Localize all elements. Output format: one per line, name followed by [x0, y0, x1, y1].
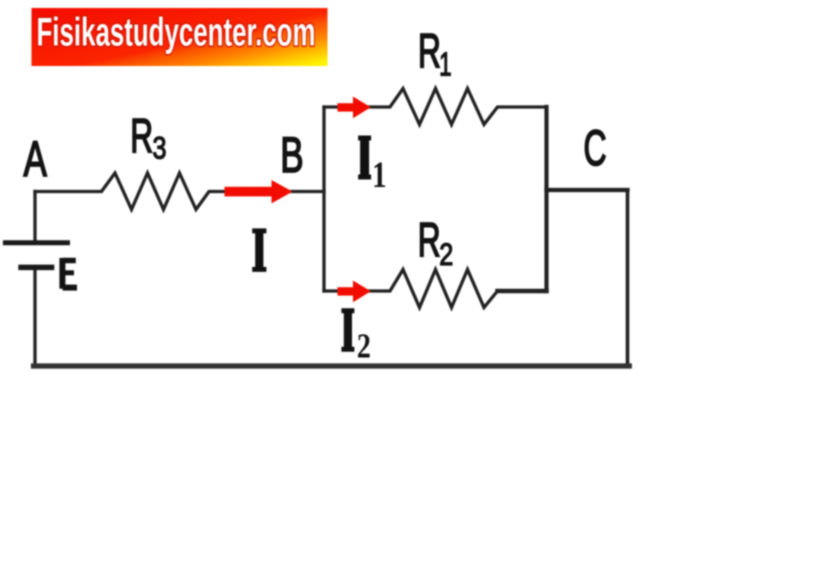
svg-text:3: 3: [153, 131, 167, 166]
svg-text:B: B: [280, 128, 303, 184]
svg-text:A: A: [24, 132, 48, 188]
svg-text:C: C: [584, 120, 607, 176]
svg-text:R: R: [418, 213, 441, 267]
svg-text:2: 2: [439, 237, 453, 272]
svg-text:1: 1: [372, 155, 386, 196]
svg-text:2: 2: [357, 327, 371, 366]
svg-text:Fisikastudycenter.com: Fisikastudycenter.com: [37, 10, 316, 54]
svg-text:1: 1: [439, 45, 451, 82]
svg-text:R: R: [130, 109, 153, 163]
svg-text:R: R: [418, 24, 441, 78]
